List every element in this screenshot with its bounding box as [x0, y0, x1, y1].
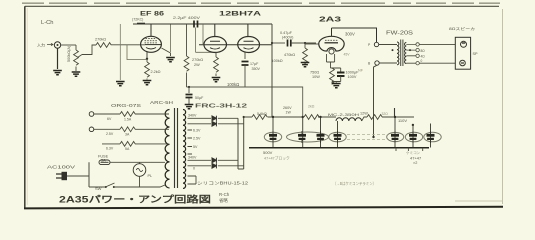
- svg-text:1W: 1W: [286, 111, 292, 115]
- svg-text:2A3: 2A3: [319, 17, 341, 24]
- svg-text:5A: 5A: [125, 147, 130, 151]
- svg-text:入力: 入力: [37, 42, 45, 48]
- svg-text:2kΩ: 2kΩ: [308, 105, 315, 109]
- svg-text:340V: 340V: [188, 114, 197, 118]
- svg-text:4Ω: 4Ω: [421, 55, 426, 59]
- svg-text:6V: 6V: [107, 117, 112, 121]
- svg-text:（→Bはケミコンテラミン）: （→Bはケミコンテラミン）: [333, 180, 376, 187]
- svg-text:5V: 5V: [193, 145, 198, 149]
- svg-text:B: B: [368, 62, 371, 66]
- svg-text:(400V): (400V): [282, 36, 294, 40]
- svg-text:2A35パワー・アンプ回路図: 2A35パワー・アンプ回路図: [59, 194, 211, 205]
- svg-text:32Ω: 32Ω: [382, 112, 389, 116]
- svg-text:6.3V: 6.3V: [193, 129, 201, 133]
- svg-text:SP: SP: [473, 52, 479, 56]
- svg-text:ARC-5H: ARC-5H: [150, 100, 173, 105]
- svg-text:12BH7A: 12BH7A: [219, 11, 261, 18]
- svg-text:50μF: 50μF: [195, 96, 204, 100]
- svg-text:5.6kΩ: 5.6kΩ: [257, 112, 267, 116]
- svg-text:47+47: 47+47: [410, 156, 422, 161]
- svg-text:350V: 350V: [252, 67, 261, 71]
- svg-text:2.5V: 2.5V: [106, 132, 114, 136]
- svg-text:500kΩ(A): 500kΩ(A): [67, 45, 71, 62]
- svg-text:270kΩ: 270kΩ: [95, 38, 106, 42]
- svg-text:ケミコン: ケミコン: [406, 150, 421, 155]
- svg-text:750Ω: 750Ω: [310, 71, 319, 75]
- svg-text:2W: 2W: [194, 63, 200, 67]
- svg-text:2.5V: 2.5V: [193, 137, 201, 141]
- svg-text:8Ωスピーカ: 8Ωスピーカ: [449, 26, 475, 31]
- svg-text:3A: 3A: [125, 133, 130, 137]
- svg-text:8Ω: 8Ω: [421, 49, 426, 53]
- svg-text:FW-20S: FW-20S: [386, 31, 414, 37]
- svg-text:シリコンBHU-15-12: シリコンBHU-15-12: [197, 181, 249, 186]
- svg-text:(72KC): (72KC): [132, 18, 143, 22]
- svg-text:470kΩ: 470kΩ: [284, 53, 295, 57]
- svg-text:100kΩ: 100kΩ: [272, 59, 283, 63]
- svg-text:6.3V: 6.3V: [106, 147, 114, 151]
- svg-text:0.47μF: 0.47μF: [280, 31, 293, 35]
- svg-text:FRC-3H-12: FRC-3H-12: [195, 104, 247, 110]
- svg-text:省略: 省略: [219, 197, 228, 204]
- svg-text:R-Ch: R-Ch: [219, 192, 230, 197]
- svg-text:P: P: [368, 43, 371, 47]
- svg-text:10W: 10W: [312, 75, 320, 79]
- svg-text:270kΩ: 270kΩ: [192, 58, 203, 62]
- svg-text:47+47ブロック: 47+47ブロック: [264, 156, 290, 161]
- svg-text:MC-2-350H: MC-2-350H: [328, 112, 359, 117]
- svg-text:1.5A: 1.5A: [124, 118, 132, 122]
- svg-text:AC100V: AC100V: [47, 165, 75, 170]
- svg-text:17μF: 17μF: [250, 62, 259, 66]
- svg-text:PL: PL: [148, 174, 153, 178]
- svg-text:340V: 340V: [188, 156, 197, 160]
- svg-text:L-Ch: L-Ch: [41, 20, 54, 26]
- svg-text:0: 0: [421, 59, 423, 63]
- svg-text:45V: 45V: [344, 53, 351, 57]
- svg-text:EF 86: EF 86: [140, 11, 164, 18]
- svg-text:100V: 100V: [348, 75, 357, 79]
- svg-text:100kΩ: 100kΩ: [227, 82, 239, 87]
- svg-text:500V: 500V: [263, 150, 273, 155]
- svg-text:0: 0: [193, 167, 195, 171]
- svg-text:2.2μF 400V: 2.2μF 400V: [173, 15, 200, 20]
- svg-text:NF: NF: [358, 69, 364, 73]
- svg-text:260V: 260V: [283, 106, 292, 110]
- svg-text:110V: 110V: [398, 118, 407, 123]
- svg-text:12W: 12W: [360, 112, 368, 116]
- svg-text:2.2kΩ: 2.2kΩ: [151, 70, 161, 74]
- svg-text:×2: ×2: [413, 161, 417, 165]
- svg-text:ORG-07S: ORG-07S: [111, 103, 141, 108]
- svg-text:300V: 300V: [345, 32, 355, 37]
